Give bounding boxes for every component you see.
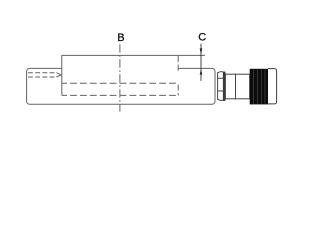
end cap: [268, 69, 277, 104]
hex nut sides: [218, 72, 225, 99]
hidden bore lower line: [62, 94, 178, 96]
right assembly: [218, 72, 250, 101]
raised body section: left edge + top edge with C extension: [62, 55, 205, 95]
nut bottom chamfer arc: [218, 99, 225, 100]
nut hex corner lines: [218, 78, 224, 91]
tapped hole hidden line upper: [28, 72, 56, 74]
tapped hole hidden line lower: [28, 76, 56, 78]
knurled adjuster knob (black): [250, 69, 268, 105]
nut top chamfer arc: [218, 72, 225, 73]
svg-text:B: B: [117, 32, 124, 44]
drill point chevron: [56, 73, 61, 77]
boss cylinder 1: [225, 74, 235, 99]
hidden bore upper line: [62, 82, 178, 84]
C dimension line + arrows: [200, 44, 203, 81]
boss cylinder 2: [236, 74, 250, 99]
nut dark band: [223, 72, 226, 101]
centerline B (dash-dot): [119, 44, 121, 111]
svg-text:C: C: [198, 32, 206, 44]
hidden edge (dashed vertical) right end of raised section: [177, 56, 179, 73]
outer body envelope (rounded outline, top interrupted by raised section): [27, 68, 215, 104]
